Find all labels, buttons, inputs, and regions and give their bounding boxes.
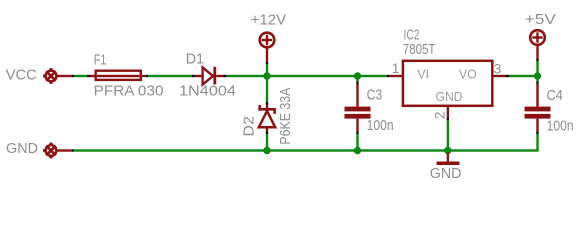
IC2 pin 2 — [447, 106, 449, 118]
svg-text:VI: VI — [417, 67, 429, 82]
svg-text:100n: 100n — [367, 117, 394, 134]
svg-text:1: 1 — [392, 60, 400, 76]
wire D2 to bottom rail — [266, 134, 268, 150]
svg-text:C3: C3 — [367, 87, 383, 104]
junction node C3 bottom — [354, 147, 361, 154]
junction black IC pin 2 to wire — [447, 118, 449, 120]
svg-text:100n: 100n — [547, 117, 574, 134]
junction black wire to C4 pin — [536, 82, 538, 85]
pin GND connector — [57, 149, 72, 151]
zener diode D2 — [258, 105, 276, 132]
svg-text:2: 2 — [431, 111, 447, 119]
junction node A — [263, 72, 270, 79]
svg-text:D1: D1 — [186, 51, 204, 68]
wire F1 to D1 — [148, 75, 192, 77]
junction black C4 pin to wire — [536, 132, 538, 135]
junction black D1 pin to wire — [224, 75, 227, 77]
svg-text:+5V: +5V — [525, 11, 556, 28]
junction black wire to D2 pin — [266, 102, 268, 105]
wire +5V to node B — [536, 61, 538, 76]
connector pad VCC — [43, 68, 58, 84]
bottom rail wire GND — [74, 149, 537, 151]
junction black C3 pin to wire — [356, 132, 358, 135]
supply symbol +5V — [530, 30, 545, 58]
wire C4 to bottom rail corner — [536, 134, 538, 152]
connector pad GND — [43, 143, 58, 159]
wire IC pin 3 to node B — [509, 75, 538, 77]
svg-text:GND: GND — [436, 89, 463, 104]
IC2 pin 1 — [390, 75, 402, 77]
junction black wire to F1 pin — [87, 75, 90, 77]
wire node B to C4 — [536, 76, 538, 82]
wire D1 to C3 and IC pin 1 — [227, 75, 387, 77]
junction black +12V pin to wire — [266, 62, 268, 64]
junction black GND pin to wire — [72, 149, 75, 151]
wire node A to D2 — [266, 76, 268, 102]
diode D1 — [195, 67, 224, 85]
IC2 pin 3 — [494, 75, 506, 77]
ground symbol GND — [437, 153, 460, 166]
svg-text:+12V: +12V — [251, 11, 287, 28]
op IC2 7805 regulator box — [403, 61, 492, 106]
junction black IC pin 3 to wire — [506, 75, 510, 77]
junction node D2 bottom — [263, 147, 270, 154]
pin VCC connector — [57, 75, 72, 77]
svg-text:VO: VO — [459, 67, 477, 82]
wire +12V to node A — [266, 64, 268, 76]
svg-text:GND: GND — [6, 140, 38, 157]
wire VCC to F1 — [74, 75, 87, 77]
junction black wire to IC pin 1 — [387, 75, 390, 77]
svg-text:VCC: VCC — [6, 66, 37, 83]
wire IC pin 2 to bottom rail — [447, 120, 449, 150]
capacitor C4 — [525, 84, 551, 132]
svg-text:1N4004: 1N4004 — [179, 83, 236, 100]
svg-text:PFRA 030: PFRA 030 — [94, 83, 164, 100]
svg-text:C4: C4 — [547, 87, 563, 104]
junction black VCC pin to wire — [72, 75, 75, 77]
wire C3 to bottom rail — [356, 134, 358, 151]
junction node B — [534, 72, 541, 79]
wire C3 top — [356, 76, 358, 82]
junction black +5V pin to wire — [536, 58, 538, 61]
svg-text:P6KE 33A: P6KE 33A — [277, 88, 294, 145]
junction black F1 pin to wire — [146, 75, 149, 77]
svg-text:F1: F1 — [94, 53, 107, 69]
junction black wire to C3 pin — [356, 82, 358, 85]
svg-text:3: 3 — [494, 61, 502, 77]
junction black wire to D1 pin — [192, 75, 195, 77]
junction node IC gnd — [444, 147, 451, 154]
svg-text:D2: D2 — [240, 116, 257, 137]
svg-text:7805T: 7805T — [403, 41, 436, 58]
fuse F1 — [90, 71, 146, 80]
capacitor C3 — [345, 84, 371, 132]
supply symbol +12V — [260, 33, 275, 62]
junction node C3 top — [354, 72, 361, 79]
junction black D2 pin to wire — [266, 132, 268, 135]
svg-text:GND: GND — [430, 165, 462, 182]
